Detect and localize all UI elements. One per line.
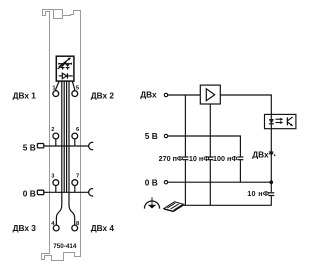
branch wire 270pF lower: [184, 160, 186, 205]
10nF right lower wire: [270, 196, 272, 205]
diode: [62, 73, 67, 78]
svg-text:ДВх: ДВх: [252, 149, 269, 159]
module latch slot: [54, 10, 63, 19]
svg-text:ДВх 1: ДВх 1: [13, 91, 37, 101]
svg-text:7: 7: [76, 173, 79, 179]
svg-text:10 нФ: 10 нФ: [247, 189, 269, 198]
stem pin6 to 5V rail: [74, 139, 76, 146]
amp ground stem upper: [209, 104, 211, 157]
0V terminal square: [37, 190, 43, 194]
svg-text:10 нФ: 10 нФ: [189, 154, 209, 163]
opto light arrow 2: [276, 122, 282, 124]
opto light arrow 1: [276, 118, 282, 120]
opto LED: [269, 119, 273, 121]
branch wire 270pF upper: [184, 95, 186, 157]
footnote star: [269, 150, 273, 155]
pin 4: [53, 225, 59, 231]
0V clamp fork: [89, 189, 94, 196]
svg-text:5 В: 5 В: [145, 131, 158, 141]
5V wire: [168, 136, 241, 157]
svg-text:100 нФ: 100 нФ: [213, 154, 237, 163]
pin 8: [72, 225, 78, 231]
junction dot: [270, 180, 274, 184]
amplifier triangle: [206, 89, 214, 101]
svg-text:5 В: 5 В: [23, 142, 36, 152]
svg-text:2: 2: [51, 127, 54, 133]
pin 2: [53, 133, 59, 139]
LED left (down): [61, 64, 65, 67]
svg-text:0 В: 0 В: [23, 188, 36, 198]
pin 1: [53, 91, 59, 97]
amp output wire: [220, 94, 271, 96]
wire bundle D (box to pin 8): [69, 81, 75, 225]
capacitor 100nF: [237, 156, 243, 158]
svg-text:0 В: 0 В: [145, 177, 158, 187]
0V wire: [168, 181, 271, 183]
diode wire: [59, 75, 73, 77]
wire bundle C (box to 0V rail): [66, 81, 68, 192]
svg-text:750-414: 750-414: [53, 243, 77, 250]
shield bottom line: [184, 204, 272, 206]
module 750-414 body outline: [42, 10, 81, 261]
LED pair wire: [59, 63, 72, 65]
stem pin1 to box: [56, 81, 59, 91]
stem pin2 to 5V rail: [55, 139, 57, 146]
rail symbol: [164, 202, 184, 212]
pin 3: [53, 180, 59, 186]
electronics box: [56, 56, 74, 81]
svg-text:ДВх: ДВх: [140, 90, 157, 100]
pin 6: [72, 133, 78, 139]
optocoupler box: [265, 114, 296, 128]
LED right (down): [66, 64, 70, 67]
pin 5: [72, 91, 78, 97]
capacitor 270pF: [182, 156, 188, 158]
svg-text:270 пФ: 270 пФ: [159, 154, 183, 163]
schematic DVx terminal: [164, 93, 167, 96]
5V rail line: [44, 145, 89, 147]
opto phototransistor: [286, 117, 288, 125]
5V clamp fork: [89, 142, 94, 149]
earth symbol: [144, 197, 159, 208]
capacitor 10nF: [207, 156, 213, 158]
wire bundle B (box to 0V rail): [63, 81, 65, 192]
stem pin3 to 0V rail: [55, 186, 57, 193]
stem pin7 to 0V rail: [74, 186, 76, 193]
capacitor 10nF right: [268, 192, 274, 194]
LED arrow 2: [58, 63, 65, 69]
opto branch vertical wire: [270, 95, 272, 193]
5V terminal square: [37, 144, 43, 148]
wire bundle A (box to pin 4): [56, 81, 61, 225]
svg-text:ДВх 2: ДВх 2: [91, 91, 115, 101]
LED arrow 1: [59, 59, 69, 67]
stem pin5 to box: [72, 81, 74, 91]
schematic 5V terminal: [164, 134, 167, 137]
0V rail line: [44, 191, 89, 193]
svg-text:ДВх 3: ДВх 3: [13, 223, 37, 233]
pin 7: [72, 180, 78, 186]
svg-text:ДВх 4: ДВх 4: [91, 223, 115, 233]
DVx wire to amp: [168, 94, 201, 96]
100nF lower wire: [239, 160, 241, 182]
amplifier box: [200, 85, 220, 104]
amp ground stem lower: [209, 160, 211, 205]
schematic 0V terminal: [164, 181, 167, 184]
